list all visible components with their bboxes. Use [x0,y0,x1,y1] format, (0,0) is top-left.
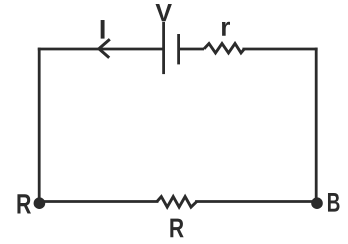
wire: left vertical (node R up to top-left corner) [38,49,41,202]
label V (battery emf) [156,4,172,21]
label R (terminal node, bottom-left) [17,194,31,213]
label R (external resistor, bottom) [170,219,183,238]
wire: top-left segment (corner to battery long plate) [39,48,163,51]
wire: bottom-left segment (node R to resistor R) [39,200,157,203]
battery cell V (long plate + short plate) [164,22,179,74]
label B (terminal node, bottom-right) [328,193,340,212]
wire: top-right segment (battery short plate to resistor r) [179,48,204,51]
wire: bottom-right segment (resistor R to node B) [197,200,317,203]
node B (junction dot, bottom-right) [311,197,323,209]
resistor r (zigzag in top wire) [204,44,244,53]
label r (internal resistance) [222,22,230,36]
wire: top segment after resistor r to top-right corner [244,48,316,51]
wire: right vertical (top-right corner down to node B) [315,49,318,202]
resistor R (zigzag in bottom wire) [157,197,197,208]
current arrow I (open arrowhead pointing left on top wire) [99,39,110,58]
label I (current) [101,20,105,39]
node R (junction dot, bottom-left) [34,197,46,209]
